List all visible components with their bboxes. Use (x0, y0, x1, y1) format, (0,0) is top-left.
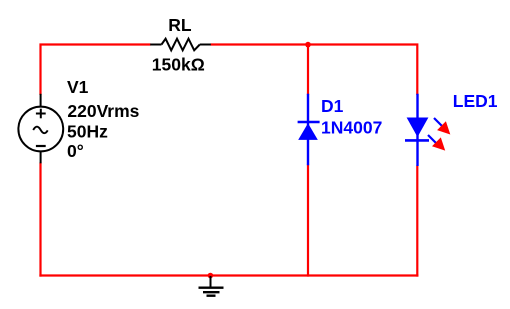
svg-text:RL: RL (168, 15, 192, 35)
svg-text:V1: V1 (67, 77, 89, 97)
LED LED1 (405, 94, 450, 166)
svg-text:0°: 0° (67, 141, 84, 161)
junction node A (top rail / D1 branch) (305, 42, 311, 48)
resistor RL (150, 39, 211, 51)
wire: left vertical segment below V1 (39, 163, 41, 277)
svg-text:LED1: LED1 (453, 91, 498, 111)
wire: top rail left segment (V1 to RL) with top-left corner (41, 45, 151, 96)
wire: top rail middle segment (RL to node A) (211, 43, 309, 45)
svg-text:50Hz: 50Hz (67, 122, 108, 142)
svg-text:1N4007: 1N4007 (321, 117, 382, 137)
svg-text:220Vrms: 220Vrms (67, 101, 139, 121)
svg-text:150kΩ: 150kΩ (152, 55, 205, 75)
wire: right branch red segment below LED1 (416, 166, 418, 277)
AC voltage source V1 (18, 94, 63, 164)
wire: middle branch red segment below D1 (307, 165, 309, 277)
wire: middle branch red segment above D1 (307, 45, 309, 96)
junction node B (bottom rail / ground) (208, 273, 214, 279)
ground (199, 276, 224, 296)
wire: bottom rail (39, 274, 418, 276)
svg-text:D1: D1 (321, 96, 344, 116)
diode D1 (298, 94, 320, 166)
wire: top rail right segment (node A to LED branch) with top-right corner (308, 45, 417, 96)
